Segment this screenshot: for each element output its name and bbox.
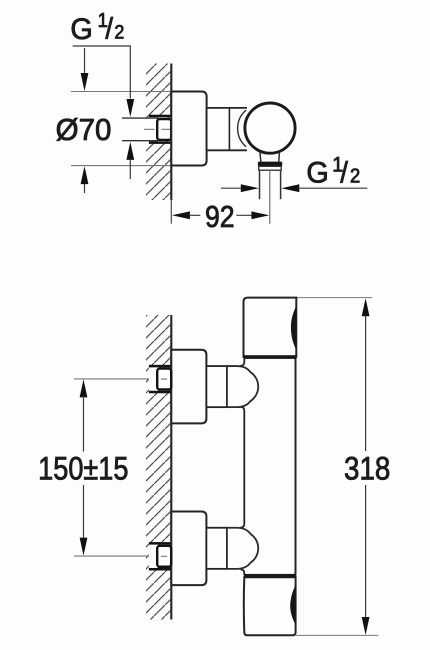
wall flange / escutcheon (top view) bbox=[171, 92, 206, 166]
union nut in wall (top view) bbox=[149, 115, 171, 118]
upper union nut bands bbox=[149, 367, 158, 390]
extension line flange top (O70) bbox=[71, 91, 171, 93]
body bottom cap bbox=[244, 577, 296, 635]
svg-text:/: / bbox=[340, 156, 348, 189]
upper union flange at wall bbox=[171, 350, 206, 424]
svg-text:318: 318 bbox=[344, 452, 390, 487]
leader line G1/2 (wall supply) bbox=[73, 46, 131, 99]
svg-text:G: G bbox=[70, 13, 92, 47]
valve housing (top view) bbox=[207, 108, 247, 150]
dimension 150±15 bbox=[80, 379, 88, 397]
lower union flange at wall bbox=[171, 512, 206, 586]
svg-text:G: G bbox=[306, 156, 328, 190]
svg-text:/: / bbox=[105, 13, 113, 46]
top cap seam bbox=[244, 355, 297, 359]
wall (top view, hatched) bbox=[146, 64, 170, 201]
lower union nut bands bbox=[149, 545, 158, 568]
svg-text:2: 2 bbox=[350, 166, 360, 188]
label G1/2 right bbox=[306, 156, 328, 190]
supply pipe stub bbox=[122, 118, 158, 141]
upper union step bbox=[206, 366, 227, 407]
bottom cap edge shading bbox=[290, 585, 295, 625]
lower union cone bbox=[227, 528, 258, 569]
svg-text:Ø70: Ø70 bbox=[56, 114, 112, 147]
lower union step bbox=[206, 528, 227, 569]
extension line lower union center bbox=[74, 555, 153, 557]
lower union nut bbox=[157, 546, 171, 567]
svg-text:150±15: 150±15 bbox=[38, 451, 128, 487]
mixer body left edge segments bbox=[240, 359, 244, 366]
wall (bottom view, hatched) bbox=[146, 315, 170, 620]
svg-text:92: 92 bbox=[205, 200, 235, 234]
extension line flange bottom (O70) bbox=[71, 165, 171, 167]
G1/2 outlet dimension arrows bbox=[221, 187, 242, 189]
outlet neck bbox=[260, 153, 280, 162]
outlet center extension line bbox=[269, 170, 271, 224]
dimension 92 bbox=[172, 211, 190, 219]
body top cap bbox=[244, 298, 297, 357]
upper union nut bbox=[157, 369, 171, 390]
outlet collar bbox=[259, 166, 281, 170]
upper union cone bbox=[227, 366, 258, 407]
bottom cap seam bbox=[244, 574, 296, 578]
svg-text:2: 2 bbox=[114, 21, 124, 43]
dimension 318 bbox=[362, 298, 370, 316]
mixer body right edge bbox=[295, 357, 297, 576]
extension line body top bbox=[297, 297, 373, 299]
extension line body bottom bbox=[296, 634, 378, 636]
G1/2 lower arrow bbox=[126, 142, 134, 160]
center line dash bbox=[144, 128, 154, 130]
outlet nut ring (dark) bbox=[258, 162, 282, 167]
thermostat knob (circle) bbox=[245, 103, 295, 153]
label O70 bbox=[56, 114, 112, 147]
label G1/2 top bbox=[70, 13, 92, 47]
dimension O70 arrows bbox=[84, 48, 86, 76]
extension line upper union center bbox=[74, 378, 153, 380]
inner knob ring arc bbox=[238, 110, 246, 147]
hose connection lines bbox=[259, 170, 261, 199]
top cap edge shading bbox=[291, 306, 296, 350]
